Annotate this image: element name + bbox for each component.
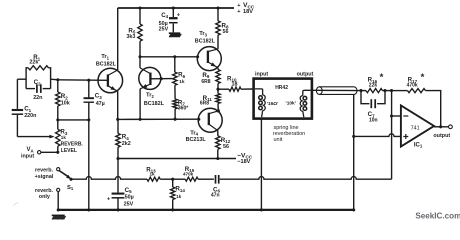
svg-text:IC1: IC1 — [414, 142, 423, 148]
node R16 right — [383, 89, 386, 92]
node C4 top on rail — [172, 6, 175, 9]
0V ground rail — [59, 209, 354, 211]
node TR4 base — [197, 118, 200, 121]
svg-text:’10k’: ’10k’ — [285, 100, 296, 106]
node R16 left — [359, 89, 362, 92]
input terminal VA — [38, 151, 41, 154]
node R2 top — [56, 78, 59, 81]
capacitor C4 — [172, 8, 174, 17]
scan smudge — [14, 203, 19, 207]
input coil 16ohm — [255, 89, 263, 95]
node output stage mid — [216, 88, 219, 91]
node screen ground — [352, 208, 355, 211]
resistor R14 — [172, 179, 174, 187]
node inverting input top — [390, 89, 393, 92]
svg-text:6R8: 6R8 — [200, 101, 209, 107]
svg-text:output: output — [297, 72, 314, 78]
+Vcc supply rail — [118, 7, 234, 9]
svg-text:+signal: +signal — [35, 174, 54, 180]
capacitor C6 — [215, 175, 217, 184]
svg-text:360*: 360* — [178, 106, 188, 112]
node C3 ground line junction — [87, 118, 90, 121]
resistor R12 — [216, 136, 220, 150]
node reverb only ground — [57, 208, 60, 211]
ground symbol below C4 — [169, 32, 180, 34]
capacitor C3 — [88, 80, 90, 97]
node inverting input — [390, 114, 393, 117]
svg-text:470k: 470k — [183, 172, 194, 177]
svg-text:Tr3: Tr3 — [199, 31, 207, 37]
svg-text:18: 18 — [232, 81, 238, 87]
node TR1 emitter junction — [116, 118, 119, 121]
svg-text:Tr1: Tr1 — [101, 54, 109, 60]
capacitor C7 parallel branch — [361, 91, 369, 104]
svg-text:VA: VA — [27, 147, 35, 153]
wire op-amp + input from screen — [354, 134, 401, 137]
svg-text:REVERB.: REVERB. — [61, 142, 84, 148]
svg-text:741: 741 — [411, 125, 420, 131]
svg-text:BC182L: BC182L — [144, 101, 165, 107]
svg-text:56: 56 — [223, 29, 229, 35]
wire R1C2 node to TR1 base — [51, 78, 58, 81]
resistor R16 — [361, 90, 366, 92]
svg-text:10n: 10n — [369, 118, 378, 124]
svg-text:1k: 1k — [61, 135, 67, 140]
wire unit chassis to ground rail — [260, 119, 262, 210]
resistor R8 — [217, 8, 219, 21]
node C5 bottom — [116, 208, 119, 211]
wire inverting input vertical — [391, 91, 393, 116]
wire C6 to inverting input — [220, 177, 392, 180]
svg-text:25V: 25V — [159, 26, 169, 32]
node R2 bottom junction — [56, 118, 59, 121]
svg-text:*: * — [421, 72, 425, 83]
node S1 common — [69, 178, 72, 181]
node R13 R14 R15 — [171, 178, 174, 181]
svg-text:LEVEL: LEVEL — [61, 148, 77, 154]
svg-text:BC182L: BC182L — [195, 39, 216, 45]
svg-text:3k3: 3k3 — [126, 34, 135, 40]
wire to inverting node — [385, 90, 392, 92]
svg-text:BC213L: BC213L — [186, 137, 207, 143]
node R8 top on rail — [216, 6, 219, 9]
potentiometer R3 REVERB LEVEL — [56, 129, 60, 146]
resistor R10 — [218, 88, 229, 90]
switch contact reverb+signal — [57, 168, 60, 171]
R3 wiper arrow wire from C1 — [17, 136, 51, 138]
-Vcc supply rail — [118, 158, 236, 160]
resistor R9 — [217, 68, 219, 70]
svg-text:2k2: 2k2 — [122, 141, 131, 147]
node C3 top — [87, 79, 90, 82]
svg-text:47n: 47n — [211, 192, 220, 198]
resistor R15 — [173, 178, 186, 180]
svg-text:1k: 1k — [176, 194, 182, 199]
node R6 top — [173, 55, 176, 58]
wire TR2 base to R6 — [150, 78, 172, 80]
svg-text:6R8: 6R8 — [201, 79, 210, 85]
svg-text:Tr4: Tr4 — [190, 130, 198, 136]
svg-text:56: 56 — [223, 144, 229, 150]
spring line reverberation unit box HR42 — [254, 79, 312, 119]
wire C3 to ground rail — [88, 102, 90, 209]
wire to op-amp - input — [392, 115, 401, 117]
wire output through screened cable — [313, 89, 361, 91]
transistor TR2 — [139, 67, 161, 89]
node screen to op-amp + line — [352, 135, 355, 138]
wire TR1 emitter down — [117, 91, 119, 119]
wire VA to R3 — [41, 151, 58, 153]
svg-text:220n: 220n — [24, 113, 36, 119]
resistor R5 — [139, 8, 141, 24]
wire TR4 collector to R12 — [217, 131, 219, 136]
node chassis ground — [260, 208, 263, 211]
svg-text:S1: S1 — [67, 185, 74, 191]
resistor R11 — [217, 89, 219, 93]
svg-text:470k: 470k — [407, 83, 418, 89]
capacitor C1 — [16, 79, 18, 109]
node R3 bottom — [56, 151, 59, 154]
node R12 bottom on -Vcc rail — [216, 157, 219, 160]
node TR2 emitter on bus — [139, 118, 142, 121]
svg-text:18V: 18V — [243, 9, 253, 15]
node R5 top on rail — [138, 6, 141, 9]
svg-text:10k: 10k — [61, 101, 70, 107]
resistor R6 — [174, 57, 176, 72]
wire reverb only to ground rail — [57, 192, 59, 210]
node TR3 base — [196, 55, 199, 58]
node ground rail x88 — [87, 208, 90, 211]
output coil 10k — [303, 90, 311, 95]
capacitor C2 — [26, 88, 35, 90]
svg-text:output: output — [433, 133, 450, 139]
svg-text:25V: 25V — [124, 201, 134, 207]
resistor R1 — [26, 68, 28, 89]
switch S1 lever — [59, 171, 68, 177]
svg-text:SeekIC.com: SeekIC.com — [415, 212, 460, 221]
resistor R2 — [56, 92, 60, 106]
switch contact reverb only — [57, 188, 60, 191]
svg-text:HR42: HR42 — [275, 85, 288, 91]
svg-text:’16Ω’: ’16Ω’ — [267, 101, 279, 107]
svg-text:50µ: 50µ — [125, 194, 134, 200]
svg-text:1k: 1k — [150, 172, 156, 177]
output terminal — [449, 125, 453, 129]
switch S1 wire common — [71, 177, 147, 180]
wire TR2 collector to TR3 base — [140, 56, 198, 58]
node TR2 collector junction — [138, 55, 141, 58]
node TR4 emitter — [217, 109, 220, 112]
svg-text:unit: unit — [274, 137, 283, 143]
node TR2 base — [160, 77, 163, 80]
svg-text:1k: 1k — [179, 79, 185, 85]
svg-text:*: * — [380, 72, 384, 83]
node R4 bottom on -Vcc rail — [116, 157, 119, 160]
resistor R7 — [174, 85, 176, 99]
node R7 bottom on bus — [174, 118, 177, 121]
node R14 bottom — [171, 208, 174, 211]
wire TR2 emitter down — [139, 89, 141, 119]
svg-text:reverb.: reverb. — [35, 167, 53, 173]
emitter bus wire TR1-TR4 base — [118, 118, 199, 120]
svg-text:only: only — [39, 194, 50, 200]
svg-text:22k: 22k — [29, 60, 38, 66]
svg-text:BC182L: BC182L — [96, 61, 117, 67]
op-amp IC1 741 — [401, 105, 434, 146]
capacitor C5 — [117, 159, 119, 193]
resistor R13 — [147, 177, 160, 181]
wire screen to ground rail — [353, 94, 355, 209]
screened cable sheath — [316, 87, 322, 95]
wire TR1 collector to +Vcc — [117, 8, 119, 70]
ground symbol below rail — [52, 214, 65, 216]
transistor TR1 — [98, 68, 123, 93]
wire R2-R3 junction to ground line — [58, 119, 89, 121]
resistor R17 feedback — [392, 90, 408, 92]
resistor R4 — [117, 119, 119, 133]
wire C1 to R1/C2 node — [17, 78, 26, 80]
transistor TR3 — [197, 47, 221, 71]
svg-text:47µ: 47µ — [96, 101, 105, 107]
svg-text:22k: 22k — [369, 83, 378, 89]
transistor TR4 — [198, 108, 222, 132]
svg-text:input: input — [21, 154, 34, 160]
svg-text:input: input — [255, 71, 268, 77]
svg-text:Tr2: Tr2 — [146, 93, 154, 99]
svg-text:−18V: −18V — [237, 159, 250, 165]
svg-text:22n: 22n — [33, 95, 42, 101]
wire op-amp output — [434, 126, 449, 128]
node output feedback — [439, 125, 442, 128]
